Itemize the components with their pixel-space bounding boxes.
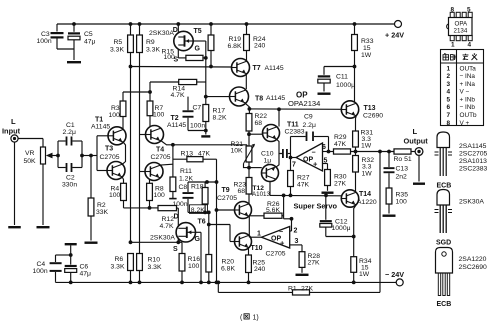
svg-text:5: 5: [447, 96, 451, 103]
wire T2 emitter to node: [161, 141, 173, 145]
resistor R10: [137, 254, 143, 271]
resistor R30: [325, 170, 331, 186]
svg-text:C8: C8: [179, 184, 188, 191]
svg-text:4: 4: [447, 89, 451, 96]
svg-text:100: 100: [164, 54, 176, 61]
transistor T11 C2383: [263, 125, 280, 142]
svg-text:15: 15: [363, 45, 371, 52]
svg-text:8: 8: [447, 120, 451, 127]
wire T14 emitter to R34: [354, 205, 357, 257]
svg-text:OUTa: OUTa: [460, 65, 477, 72]
svg-text:47K: 47K: [297, 182, 310, 189]
svg-text:+: +: [280, 239, 285, 248]
svg-text:100n: 100n: [37, 38, 52, 45]
capacitor C5: [72, 22, 76, 26]
resistor R31: [353, 131, 359, 147]
resistor R26: [249, 215, 264, 217]
wire T5 gate to R15 right: [193, 40, 206, 42]
svg-text:Ro 51: Ro 51: [394, 156, 412, 163]
ground output: [413, 183, 425, 185]
svg-text:C10: C10: [261, 151, 274, 158]
wire pin6: [323, 151, 329, 153]
wire source to R6 rail: [131, 241, 183, 243]
transistor T3 C2705: [107, 162, 125, 180]
svg-text:47K: 47K: [334, 141, 347, 148]
ground input: [8, 226, 21, 228]
svg-text:R1: R1: [288, 286, 297, 293]
svg-text:3: 3: [447, 81, 451, 88]
svg-text:3.3K: 3.3K: [110, 47, 124, 54]
wire R24 to T7 collector: [246, 51, 248, 62]
svg-text:+ INb: + INb: [460, 96, 476, 103]
svg-text:C2705: C2705: [266, 251, 286, 258]
svg-text:6: 6: [447, 104, 451, 111]
wire R9 rail down: [139, 53, 141, 254]
svg-text:47μ: 47μ: [84, 39, 96, 46]
svg-text:A1013: A1013: [252, 191, 270, 198]
svg-text:1W: 1W: [362, 171, 373, 178]
svg-text:100: 100: [188, 263, 200, 270]
svg-text:240: 240: [254, 266, 266, 273]
svg-text:L: L: [11, 117, 16, 126]
svg-text:3.3K: 3.3K: [146, 47, 160, 54]
svg-text:47K: 47K: [198, 151, 211, 158]
wire gate node rail down: [205, 58, 207, 97]
svg-text:6: 6: [322, 144, 326, 151]
svg-text:SGD: SGD: [436, 240, 451, 247]
svg-text:T10: T10: [251, 245, 263, 252]
ground C11: [318, 93, 331, 95]
svg-text:8.2K: 8.2K: [213, 115, 227, 122]
svg-text:R16: R16: [188, 256, 201, 263]
resistor R28: [299, 252, 305, 268]
svg-text:R6: R6: [115, 256, 124, 263]
ground VR: [37, 226, 50, 228]
svg-text:A1145: A1145: [265, 65, 284, 72]
capacitor C6: [70, 255, 72, 265]
wire C-node to bases: [80, 154, 84, 158]
transistor T9 C2705: [235, 202, 252, 219]
wire T4 collector stub: [160, 163, 173, 166]
capacitor C11: [324, 66, 355, 68]
wire T11 base: [249, 133, 263, 135]
wire T6 source: [177, 239, 179, 243]
resistor Ro 51: [394, 149, 411, 154]
resistor R4: [121, 183, 127, 200]
terminal -24V: [396, 279, 403, 286]
transistor T7 A1145: [232, 59, 250, 77]
svg-text:Output: Output: [404, 137, 429, 146]
svg-text:100: 100: [109, 112, 121, 119]
wire T8 base: [206, 96, 230, 98]
terminal output L: [415, 148, 423, 156]
svg-text:OPA2134: OPA2134: [288, 99, 320, 108]
wire R19 bottom: [210, 51, 212, 67]
svg-text:7: 7: [447, 112, 451, 119]
resistor R15: [186, 55, 203, 60]
wire T6 gate: [196, 231, 202, 233]
wire pin7 output: [291, 157, 297, 159]
wire T4 emitter to R8: [149, 179, 151, 183]
svg-text:T2: T2: [171, 115, 179, 122]
svg-text:T5: T5: [194, 28, 202, 35]
svg-text:T7: T7: [253, 65, 261, 72]
svg-text:27K: 27K: [334, 181, 347, 188]
svg-text:2SK30A: 2SK30A: [459, 199, 484, 206]
wire T11 collector: [278, 109, 280, 126]
wiper arrow VR: [48, 155, 53, 157]
svg-text:2: 2: [447, 73, 451, 80]
resistor R22: [248, 109, 250, 114]
wire R1 feedback: [217, 282, 219, 292]
resistor R13: [173, 158, 187, 160]
svg-text:VR: VR: [25, 150, 35, 157]
svg-text:C2705: C2705: [151, 154, 171, 161]
wire T2 base stub: [140, 134, 146, 136]
capacitor C4: [56, 254, 71, 256]
resistor R14: [149, 82, 151, 92]
svg-text:R19: R19: [229, 36, 242, 43]
wire C7 to R17 bottom: [188, 130, 206, 132]
svg-text:C1: C1: [66, 122, 75, 129]
op-amp OP half A servo: [262, 227, 290, 249]
pin table: [441, 50, 484, 126]
svg-text:2: 2: [294, 228, 298, 235]
svg-text:ECB: ECB: [437, 301, 452, 308]
wire pin3 to R28: [290, 244, 302, 246]
wire T7 emitter to T8: [245, 75, 247, 90]
resistor R24: [245, 22, 249, 26]
svg-text:100: 100: [154, 192, 166, 199]
svg-text:100n: 100n: [190, 123, 205, 130]
svg-text:C13: C13: [396, 166, 409, 173]
svg-text:2SK30A: 2SK30A: [149, 30, 174, 37]
svg-text:G: G: [195, 236, 201, 243]
svg-text:1000μ: 1000μ: [332, 225, 351, 232]
svg-text:T11: T11: [287, 122, 299, 129]
wire R1 to output node: [310, 291, 381, 293]
svg-text:C6: C6: [80, 264, 89, 271]
ground C5: [67, 61, 81, 63]
resistor R7: [149, 92, 151, 101]
svg-text:L: L: [413, 127, 418, 136]
capacitor C1: [57, 141, 59, 156]
transistor T4 C2705: [145, 163, 163, 181]
wire T4 base stub: [140, 171, 146, 173]
transistor T14 A1220: [341, 190, 358, 207]
svg-text:6.8K: 6.8K: [228, 43, 242, 50]
capacitor C12: [325, 195, 327, 219]
trimmer R21: [248, 134, 250, 146]
resistor R27: [290, 158, 292, 171]
wire pin2: [284, 218, 292, 220]
svg-text:6.8K: 6.8K: [221, 266, 235, 273]
wire T10 emitter to R25: [247, 248, 249, 255]
svg-text:1μ: 1μ: [264, 158, 272, 165]
wire +24V top rail: [57, 23, 394, 25]
wire pin5 to R30: [323, 163, 328, 165]
wire T8 emitter to T13 base: [246, 104, 250, 109]
svg-text:A1145: A1145: [266, 95, 285, 102]
svg-text:C3: C3: [41, 31, 50, 38]
resistor R3: [122, 92, 124, 101]
transistor T1 A1145: [108, 127, 126, 145]
svg-text:3.3: 3.3: [362, 164, 372, 171]
svg-text:1: 1: [257, 231, 261, 238]
resistor R6: [128, 254, 134, 271]
svg-text:3: 3: [295, 238, 299, 245]
resistor R34: [351, 257, 357, 273]
svg-text:C2705: C2705: [100, 154, 120, 161]
svg-text:D: D: [173, 27, 178, 34]
resistor R8: [147, 183, 153, 200]
capacitor C8: [187, 182, 189, 192]
svg-text:V +: V +: [460, 120, 470, 127]
wire T1 T3 base rail: [96, 136, 98, 171]
wire emitters to C10: [277, 140, 282, 154]
wire node rail down to R11: [172, 145, 174, 177]
transistor T6 2SK30A: [176, 223, 195, 242]
svg-text:2SA1220: 2SA1220: [459, 256, 487, 263]
capacitor C13: [388, 152, 390, 168]
svg-text:R33: R33: [361, 38, 374, 45]
svg-text:− 24V: − 24V: [385, 270, 404, 279]
wire R13 to T9 base: [216, 159, 218, 282]
svg-text:2SC2383: 2SC2383: [459, 166, 488, 173]
svg-text:Input: Input: [2, 127, 21, 136]
svg-text:1W: 1W: [361, 52, 372, 59]
svg-text:R2: R2: [97, 202, 106, 209]
ground R17 C7: [201, 135, 210, 137]
svg-text:T13: T13: [364, 105, 376, 112]
svg-text:27K: 27K: [308, 260, 321, 267]
wire R26 riser to servo rail: [283, 195, 285, 218]
capacitor C9 feedback: [290, 137, 292, 158]
svg-text:5.6K: 5.6K: [266, 207, 280, 214]
svg-text:47μ: 47μ: [80, 271, 92, 278]
svg-text:Super Servo: Super Servo: [294, 202, 338, 211]
svg-text:R20: R20: [222, 259, 235, 266]
svg-text:C2: C2: [66, 175, 75, 182]
svg-text:1: 1: [447, 65, 451, 72]
svg-text:T9: T9: [222, 187, 230, 194]
svg-text:T6: T6: [198, 219, 206, 226]
svg-text:− INb: − INb: [460, 104, 476, 111]
wire servo rail to T14 base: [270, 194, 341, 196]
resistor R19: [209, 22, 213, 26]
svg-text:100: 100: [396, 199, 408, 206]
svg-text:3.3K: 3.3K: [148, 264, 162, 271]
svg-text:2134: 2134: [454, 28, 468, 35]
svg-text:+ 24V: + 24V: [385, 31, 404, 40]
package TO-126 output: [436, 248, 453, 274]
svg-text:1): 1): [253, 315, 259, 322]
svg-text:2.2μ: 2.2μ: [63, 129, 76, 136]
svg-text:A1145: A1145: [167, 122, 186, 129]
svg-text:100n: 100n: [33, 268, 48, 275]
svg-text:3.3K: 3.3K: [111, 264, 125, 271]
svg-text:100: 100: [109, 192, 121, 199]
svg-text:2SC2690: 2SC2690: [459, 264, 488, 271]
svg-text:+ INa: + INa: [460, 81, 476, 88]
resistor R16: [181, 242, 183, 253]
svg-text:C2383: C2383: [285, 129, 305, 136]
open end bar R11: [169, 198, 176, 200]
svg-text:1W: 1W: [359, 271, 370, 278]
svg-text:A1220: A1220: [357, 199, 377, 206]
svg-text:33K: 33K: [96, 209, 109, 216]
svg-text:R3: R3: [111, 105, 120, 112]
svg-text:R12: R12: [162, 216, 175, 223]
wire T1 emitter to T3 collector: [122, 142, 125, 164]
svg-text:R29: R29: [334, 134, 347, 141]
resistor R2: [90, 156, 92, 199]
wire input: [18, 138, 43, 140]
ground R28: [296, 274, 309, 276]
capacitor C10: [282, 149, 284, 158]
svg-text:7: 7: [292, 162, 296, 169]
wire op1 output: [249, 236, 261, 238]
svg-text:OPA: OPA: [455, 21, 468, 28]
svg-text:240: 240: [254, 43, 266, 50]
svg-text:−: −: [312, 150, 316, 157]
svg-text:2SC2705: 2SC2705: [459, 151, 488, 158]
svg-text:T1: T1: [95, 117, 103, 124]
svg-text:1: 1: [451, 42, 455, 49]
svg-text:10K: 10K: [231, 148, 244, 155]
transistor T10 C2705: [235, 233, 252, 250]
resistor R18: [204, 182, 206, 188]
transistor T5 2SK30A: [174, 31, 193, 50]
wire T3 emitter to R4: [122, 177, 123, 183]
svg-text:C11: C11: [336, 74, 348, 81]
svg-text:5: 5: [467, 7, 471, 14]
resistor R33: [353, 22, 357, 26]
wire R33 bottom to T13: [354, 51, 356, 103]
transistor T2 A1145: [146, 126, 164, 144]
svg-text:R35: R35: [396, 192, 409, 199]
wire C4 bottom to rail: [55, 281, 57, 282]
svg-text:1000μ: 1000μ: [336, 82, 355, 89]
svg-text:R10: R10: [148, 257, 161, 264]
wire T9 emitter T10 collector: [248, 216, 250, 237]
svg-text:T14: T14: [359, 191, 371, 198]
svg-text:R17: R17: [213, 108, 226, 115]
ground R2: [85, 242, 98, 244]
resistor R35: [386, 188, 392, 204]
svg-text:C2705: C2705: [217, 195, 237, 202]
svg-text:− INa: − INa: [460, 73, 476, 80]
svg-text:C9: C9: [304, 114, 313, 121]
svg-text:R13: R13: [181, 151, 194, 158]
boxed label 8.2K: [190, 205, 208, 214]
wire riser to R20 and T10: [208, 212, 210, 254]
svg-text:T3: T3: [105, 146, 113, 153]
svg-text:−: −: [279, 229, 283, 236]
svg-text:R18: R18: [191, 184, 204, 191]
wire T12 base: [249, 167, 262, 169]
svg-text:C7: C7: [193, 105, 202, 112]
wire C8 R18 bottom: [188, 211, 209, 213]
svg-text:8: 8: [451, 7, 455, 14]
svg-text:C4: C4: [37, 261, 46, 268]
resistor R11: [170, 177, 176, 192]
IC package OPA2134 DIP: [449, 18, 473, 36]
resistor R9: [138, 22, 142, 26]
svg-text:4.7K: 4.7K: [171, 92, 185, 99]
svg-text:OUTb: OUTb: [460, 112, 477, 119]
resistor R23: [248, 168, 250, 178]
wire VR bottom to ground: [42, 164, 44, 225]
wire C8 R18 top: [188, 181, 217, 183]
svg-text:S: S: [173, 246, 178, 253]
svg-text:+: +: [313, 160, 318, 169]
resistor R1: [293, 290, 310, 295]
svg-text:2n2: 2n2: [396, 174, 408, 181]
transistor T13 C2690: [341, 101, 358, 118]
svg-text:100n: 100n: [173, 201, 188, 208]
svg-text:100: 100: [153, 112, 165, 119]
svg-text:68: 68: [255, 120, 263, 127]
wire -24V bottom rail: [56, 281, 397, 283]
svg-text:T4: T4: [156, 147, 164, 154]
op-amp OP half B T11 area: [296, 143, 323, 171]
resistor R25: [246, 255, 252, 273]
resistor R12: [150, 207, 159, 209]
svg-text:R9: R9: [146, 39, 155, 46]
terminal input L: [11, 135, 18, 142]
wire T2 node to R21: [173, 144, 247, 146]
wire T13 emitter to R31: [355, 116, 358, 131]
svg-text:330n: 330n: [62, 182, 77, 189]
resistor R5: [129, 22, 133, 26]
resistor R32: [355, 152, 357, 156]
wire input sleeve ground: [14, 142, 16, 225]
svg-text:4.7K: 4.7K: [160, 223, 174, 230]
ground C4 C6 top: [65, 243, 77, 245]
transistor T8 A1145: [230, 87, 249, 106]
wire T5 source: [177, 49, 179, 58]
svg-text:D: D: [174, 214, 179, 221]
svg-text:4: 4: [468, 42, 472, 49]
svg-text:C5: C5: [84, 31, 93, 38]
wire output ground: [418, 155, 420, 181]
svg-text:V −: V −: [460, 89, 470, 96]
wire R5 node to T7 base: [131, 66, 232, 69]
svg-text:68: 68: [238, 188, 246, 195]
package TO-92 SGD 2SK30A: [437, 190, 450, 206]
svg-text:T8: T8: [255, 96, 263, 103]
svg-text:A1145: A1145: [91, 124, 110, 131]
capacitor C3: [56, 24, 58, 32]
svg-text:2SK30A: 2SK30A: [150, 235, 175, 242]
wire T12 collector down: [269, 182, 271, 196]
wire T5 drain: [176, 22, 180, 26]
ground R35: [383, 215, 396, 217]
svg-text:R27: R27: [297, 175, 310, 182]
svg-text:R22: R22: [255, 113, 268, 120]
svg-text:2SA1145: 2SA1145: [459, 143, 487, 150]
svg-text:R11: R11: [180, 168, 192, 175]
ground R30: [322, 192, 334, 194]
terminal +24V: [395, 21, 402, 28]
svg-text:ECB: ECB: [437, 183, 452, 190]
wire bias y92: [123, 91, 150, 93]
wire R4 to R8 junction: [124, 207, 150, 209]
wire C12 to R34 top: [326, 236, 354, 238]
svg-text:R5: R5: [114, 39, 123, 46]
wire R12 to T6 drain: [177, 208, 179, 226]
